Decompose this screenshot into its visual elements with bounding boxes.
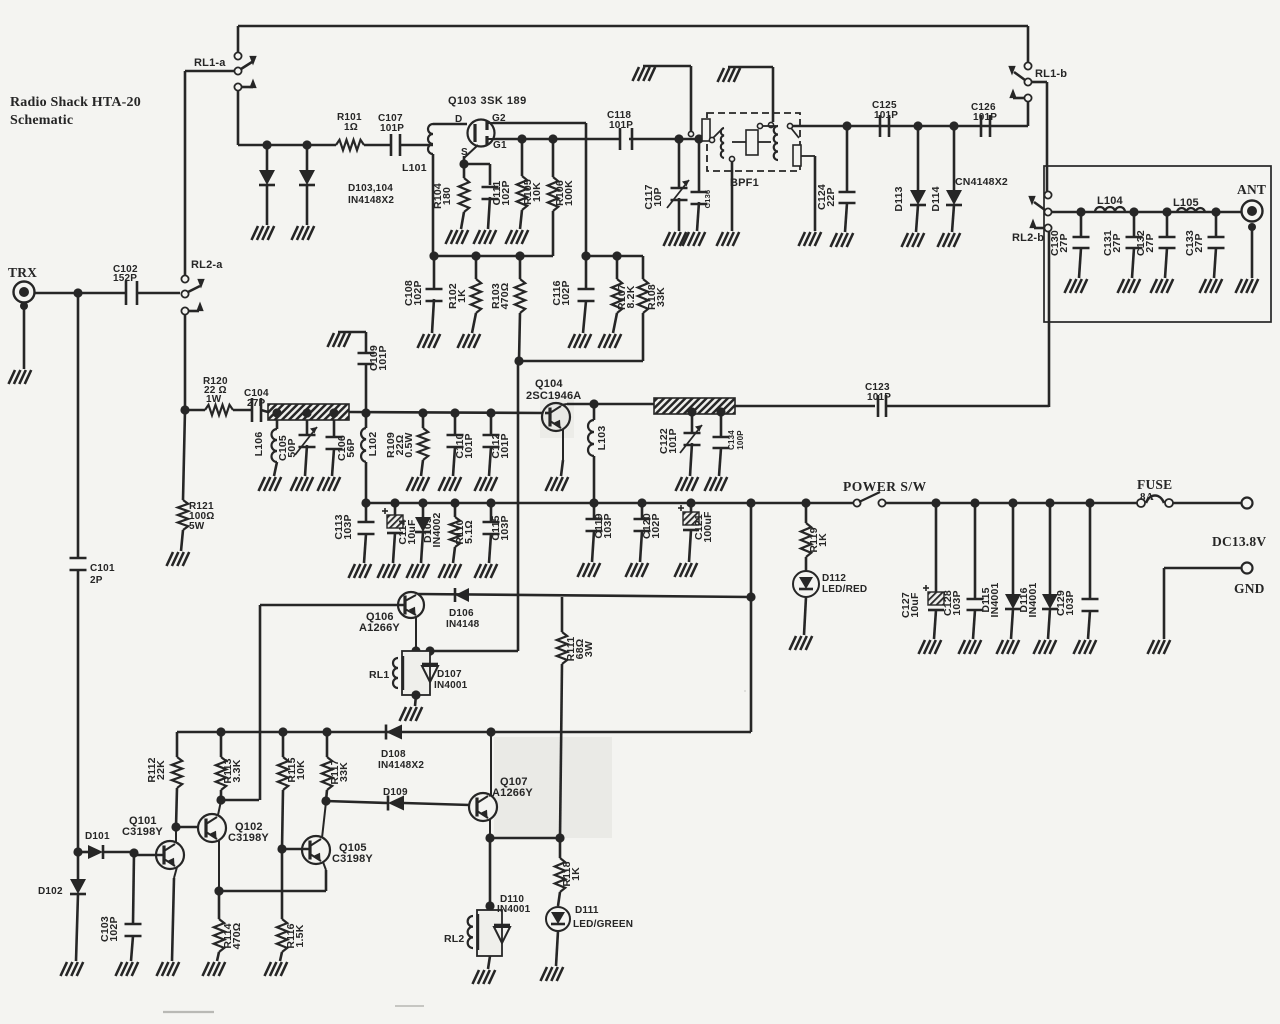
svg-text:RL2-a: RL2-a	[191, 259, 223, 271]
svg-text:101P: 101P	[867, 392, 891, 403]
svg-text:33K: 33K	[655, 287, 667, 307]
svg-text:470Ω: 470Ω	[231, 923, 243, 950]
svg-text:10K: 10K	[295, 760, 307, 780]
svg-text:D108: D108	[381, 749, 406, 760]
svg-text:3W: 3W	[583, 641, 595, 657]
svg-text:470Ω: 470Ω	[499, 283, 511, 310]
svg-text:IN4001: IN4001	[434, 680, 468, 691]
svg-text:POWER S/W: POWER S/W	[843, 479, 927, 494]
svg-text:101P: 101P	[667, 428, 679, 453]
svg-text:8A: 8A	[1140, 491, 1154, 503]
svg-text:L104: L104	[1097, 195, 1124, 207]
svg-text:102P: 102P	[412, 280, 424, 305]
svg-text:103P: 103P	[342, 514, 354, 539]
svg-text:103P: 103P	[1064, 590, 1076, 615]
svg-text:IN4001: IN4001	[1027, 582, 1039, 617]
svg-text:D111: D111	[575, 905, 599, 916]
svg-text:DC13.8V: DC13.8V	[1212, 534, 1266, 549]
svg-text:A1266Y: A1266Y	[492, 787, 533, 799]
svg-text:50P: 50P	[286, 438, 298, 457]
svg-text:102P: 102P	[560, 280, 572, 305]
svg-text:1K: 1K	[456, 289, 468, 303]
svg-text:56P: 56P	[345, 438, 357, 457]
svg-text:C3198Y: C3198Y	[332, 853, 373, 865]
svg-text:RL2-b: RL2-b	[1012, 232, 1044, 244]
svg-text:D112: D112	[822, 573, 846, 584]
svg-text:L103: L103	[596, 426, 608, 451]
svg-text:FUSE: FUSE	[1137, 477, 1172, 492]
svg-text:5.1Ω: 5.1Ω	[463, 520, 475, 544]
svg-text:33K: 33K	[338, 762, 350, 782]
svg-text:GND: GND	[1234, 581, 1265, 596]
svg-text:RL1-b: RL1-b	[1035, 68, 1067, 80]
svg-text:LED/GREEN: LED/GREEN	[573, 919, 633, 930]
svg-text:0.5W: 0.5W	[403, 432, 415, 457]
svg-text:D113: D113	[893, 186, 905, 211]
svg-text:D103,104: D103,104	[348, 183, 393, 194]
svg-text:BPF1: BPF1	[730, 177, 759, 189]
svg-text:L106: L106	[253, 432, 265, 457]
svg-text:27P: 27P	[1193, 233, 1205, 252]
svg-text:1Ω: 1Ω	[344, 122, 358, 133]
svg-text:103P: 103P	[499, 515, 511, 540]
svg-text:RL2: RL2	[444, 933, 464, 945]
svg-text:27P: 27P	[1058, 233, 1070, 252]
svg-text:103P: 103P	[951, 590, 963, 615]
svg-text:5W: 5W	[189, 521, 205, 532]
svg-text:152P: 152P	[113, 273, 137, 284]
svg-text:101P: 101P	[499, 433, 511, 458]
svg-text:D101: D101	[85, 831, 110, 842]
svg-text:D109: D109	[383, 787, 408, 798]
svg-text:IN4148X2: IN4148X2	[348, 195, 394, 206]
svg-text:3.3K: 3.3K	[231, 759, 243, 782]
svg-text:2P: 2P	[90, 575, 103, 586]
svg-text:L102: L102	[367, 432, 379, 457]
svg-text:IN4002: IN4002	[431, 512, 443, 547]
svg-text:180: 180	[441, 187, 453, 205]
svg-text:1K: 1K	[817, 533, 829, 547]
svg-text:D: D	[455, 114, 462, 125]
svg-text:8.2K: 8.2K	[625, 285, 637, 308]
svg-text:101P: 101P	[377, 345, 389, 370]
svg-text:100K: 100K	[563, 180, 575, 206]
svg-text:100uF: 100uF	[702, 511, 714, 543]
svg-text:TRX: TRX	[8, 265, 37, 280]
svg-text:102P: 102P	[108, 916, 120, 941]
svg-text:IN4001: IN4001	[989, 582, 1001, 617]
svg-text:10uF: 10uF	[909, 592, 921, 618]
svg-text:22P: 22P	[825, 187, 837, 206]
svg-text:LED/RED: LED/RED	[822, 584, 867, 595]
svg-text:100P: 100P	[736, 430, 745, 450]
svg-text:1.5K: 1.5K	[294, 924, 306, 947]
svg-text:G1: G1	[493, 140, 507, 151]
svg-text:27P: 27P	[247, 398, 266, 409]
svg-text:IN4148X2: IN4148X2	[378, 760, 424, 771]
svg-text:102P: 102P	[500, 180, 512, 205]
svg-text:C136: C136	[703, 190, 712, 209]
svg-text:D114: D114	[930, 186, 942, 211]
svg-text:C134: C134	[727, 430, 736, 450]
svg-text:22K: 22K	[155, 760, 167, 780]
svg-text:L105: L105	[1173, 197, 1199, 209]
svg-text:10P: 10P	[652, 187, 664, 206]
svg-text:101P: 101P	[463, 433, 475, 458]
svg-text:CN4148X2: CN4148X2	[955, 176, 1008, 188]
svg-text:1K: 1K	[570, 867, 582, 881]
svg-text:Q103 3SK 189: Q103 3SK 189	[448, 95, 527, 107]
svg-text:103P: 103P	[602, 513, 614, 538]
svg-text:101P: 101P	[874, 110, 898, 121]
svg-text:D107: D107	[437, 669, 462, 680]
svg-text:C101: C101	[90, 563, 115, 574]
svg-text:D102: D102	[38, 886, 63, 897]
svg-text:2SC1946A: 2SC1946A	[526, 390, 581, 402]
svg-text:Schematic: Schematic	[10, 113, 73, 128]
svg-text:102P: 102P	[650, 513, 662, 538]
svg-text:27P: 27P	[1144, 233, 1156, 252]
svg-text:101P: 101P	[973, 112, 997, 123]
svg-text:IN4001: IN4001	[497, 904, 531, 915]
svg-text:ANT: ANT	[1237, 182, 1266, 197]
svg-text:Q104: Q104	[535, 378, 563, 390]
svg-text:L101: L101	[402, 162, 427, 174]
svg-text:27P: 27P	[1111, 233, 1123, 252]
svg-text:1W: 1W	[206, 394, 222, 405]
svg-text:Radio Shack HTA-20: Radio Shack HTA-20	[10, 95, 141, 110]
svg-text:RL1-a: RL1-a	[194, 57, 226, 69]
svg-text:C3198Y: C3198Y	[122, 826, 163, 838]
svg-text:101P: 101P	[609, 120, 633, 131]
svg-text:A1266Y: A1266Y	[359, 622, 400, 634]
svg-text:101P: 101P	[380, 123, 404, 134]
svg-text:RL1: RL1	[369, 669, 389, 681]
svg-text:C3198Y: C3198Y	[228, 832, 269, 844]
svg-text:IN4148: IN4148	[446, 619, 480, 630]
svg-text:10K: 10K	[531, 182, 543, 202]
svg-text:D106: D106	[449, 608, 474, 619]
